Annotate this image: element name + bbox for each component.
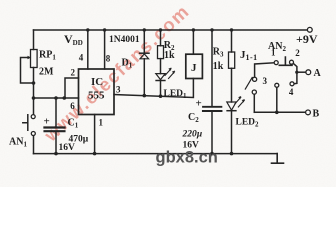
- svg-text:4: 4: [289, 87, 294, 97]
- junction: C2 at ground rail: [210, 152, 214, 156]
- potentiometer RP1 body: [31, 50, 38, 68]
- svg-text:2: 2: [71, 68, 76, 78]
- pushbutton AN2 actuator bar: [279, 57, 292, 65]
- RP1 wiper arrowhead: [28, 56, 32, 59]
- junction: pins 2-6 node at left rail: [32, 96, 36, 100]
- wire: left rail lower segment: [33, 136, 35, 154]
- wire: node of pins 2-6 to left rail: [34, 97, 79, 99]
- wire: bottom ground rail: [34, 153, 278, 155]
- junction: pin 8 at top rail: [103, 28, 106, 31]
- svg-text:1: 1: [99, 118, 104, 128]
- terminal A: [306, 70, 311, 75]
- watermark www.elecfans.com: [40, 0, 194, 146]
- junction: D1 at top rail: [143, 28, 146, 31]
- wire: AN2 pin 1 to relay contact J1-1: [255, 63, 275, 78]
- junction: D1 at pin 3 node: [143, 94, 147, 98]
- junction: C2 at top rail: [210, 28, 213, 31]
- pushbutton AN1 actuator: [23, 115, 28, 131]
- relay contact J1-1 blade: [245, 78, 252, 90]
- junction: node A at jumper: [295, 71, 298, 74]
- svg-text:3: 3: [263, 76, 268, 86]
- svg-text:16V: 16V: [59, 143, 76, 153]
- wire: pin 1 lead to ground rail: [94, 115, 96, 154]
- terminal B: [306, 110, 311, 115]
- AN2 pin 3 contact: [275, 83, 279, 87]
- svg-text:2M: 2M: [39, 67, 54, 78]
- wire: relay coil top lead: [192, 30, 194, 54]
- wire: node A output: [297, 71, 306, 73]
- J1-1 contact circles: [253, 77, 257, 81]
- LED2 symbol: [227, 102, 236, 110]
- junction: AN2 pin 3 at node B: [275, 111, 279, 115]
- wire: left rail upper segment: [33, 30, 35, 50]
- wire: pin 2 stub tied down to pin 6: [65, 78, 79, 98]
- svg-text:4: 4: [79, 53, 84, 63]
- svg-text:gbx8.cn: gbx8.cn: [156, 149, 218, 167]
- RP1 wiper arm and wire to lower terminal: [21, 58, 34, 84]
- wire: pin 3 output node: [114, 79, 193, 98]
- wire: left rail middle segment: [33, 68, 35, 115]
- svg-text:6: 6: [70, 101, 75, 111]
- op-amp/timer IC 555 box U1: [79, 69, 115, 115]
- svg-text:1: 1: [271, 48, 276, 58]
- svg-text:1k: 1k: [213, 61, 224, 72]
- wire: node B output: [254, 111, 305, 113]
- svg-text:IC: IC: [91, 76, 103, 88]
- ground symbol: [272, 154, 284, 164]
- capacitor C2 plates: [203, 106, 221, 108]
- LED1 arrowheads: [168, 68, 171, 72]
- svg-text:+: +: [44, 116, 50, 128]
- diode D1 cathode bar: [140, 52, 149, 54]
- AN2 pin 1 contact: [274, 61, 278, 65]
- junction: C1 at ground rail: [54, 152, 58, 156]
- svg-text:A: A: [314, 68, 322, 79]
- svg-text:8: 8: [106, 54, 111, 64]
- diode D1 triangle: [140, 54, 149, 59]
- svg-text:+9V: +9V: [296, 32, 318, 46]
- wire: pin 4 lead from rail: [87, 30, 89, 69]
- AN2 pin 2 contact: [290, 60, 294, 64]
- svg-text:220µ: 220µ: [182, 130, 203, 140]
- svg-text:3: 3: [116, 85, 121, 95]
- svg-text:1N4001: 1N4001: [109, 35, 140, 45]
- LED2 arrowheads: [238, 96, 241, 100]
- relay coil J box: [186, 54, 203, 78]
- wire: AN2 jumper pin 2 to pin 4: [293, 63, 297, 83]
- svg-text:2: 2: [295, 48, 300, 58]
- junction: pin 4 at top rail: [86, 28, 89, 31]
- AN1 contact circles: [31, 115, 35, 119]
- resistor R3: [231, 30, 233, 102]
- junction: LED1 at pin 3 node: [159, 94, 163, 98]
- LED2 emission arrows: [235, 97, 245, 107]
- terminal +9V: [307, 27, 312, 32]
- junction: LED2 at ground rail: [230, 152, 234, 156]
- svg-text:B: B: [313, 109, 320, 120]
- junction: R3 at top rail: [230, 28, 233, 31]
- diode D1 leads: [143, 30, 145, 96]
- junction: relay coil at top rail: [192, 28, 195, 31]
- LED1 emission arrows: [165, 69, 175, 79]
- svg-text:+: +: [196, 98, 202, 110]
- junction: pin 1 at ground rail: [93, 152, 97, 156]
- junction: RP1 wiper at left rail: [32, 81, 36, 85]
- capacitor C1 leads: [55, 98, 57, 154]
- AN2 pin 4 contact: [290, 82, 294, 86]
- wire: AN2 pin 3 lead down to node B: [276, 87, 278, 112]
- LED1 symbol: [156, 74, 165, 80]
- svg-text:J: J: [191, 62, 197, 74]
- svg-text:555: 555: [88, 90, 105, 102]
- wire: pin 8 lead from rail: [104, 30, 106, 69]
- capacitor C2 leads: [211, 30, 213, 154]
- svg-text:1k: 1k: [164, 50, 175, 61]
- junction: R2 at top rail: [159, 28, 162, 31]
- wire: J1-1 lower lead: [253, 94, 255, 112]
- junction: pin 2-6 tie at node: [63, 96, 67, 100]
- capacitor C1 plates: [45, 126, 65, 128]
- junction: C1 top at node: [54, 96, 58, 100]
- wire: top +9V supply rail: [34, 29, 308, 31]
- resistor R2: [160, 30, 162, 74]
